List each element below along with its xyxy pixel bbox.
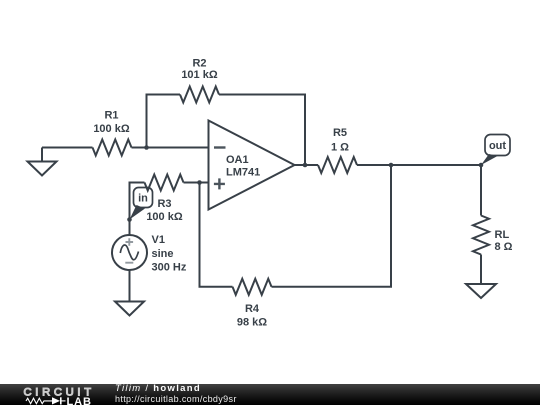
svg-text:101 kΩ: 101 kΩ [181,69,218,81]
svg-text:sine: sine [152,248,174,260]
wire node A to op-amp inverting input [147,147,209,149]
resistor R5 labels [331,127,349,153]
resistor R2 [180,87,219,103]
op-amp OA1 labels [226,154,260,178]
wire node E to R5 [305,164,318,166]
ground GND2 [115,302,144,316]
svg-text:R1: R1 [104,109,118,121]
node E junction at output [303,163,308,168]
CircuitLab logo diode symbol [52,397,66,404]
wire node D to node F [391,164,481,166]
node C junction at + input [197,180,202,185]
svg-text:LAB: LAB [67,396,92,405]
wire V1 to GND2 [129,270,131,302]
svg-text:out: out [489,140,506,152]
resistor RL [473,216,489,255]
svg-text:300 Hz: 300 Hz [152,261,187,273]
resistor R4 [233,279,272,295]
voltage source V1 [112,235,147,270]
node A junction [144,145,149,150]
svg-text:R5: R5 [333,127,347,139]
svg-text:8 Ω: 8 Ω [495,241,513,253]
svg-text:R2: R2 [192,57,206,69]
resistor R3 labels [146,198,183,223]
resistor RL labels [495,229,513,253]
wire node F down to RL [480,165,482,216]
wire node C down to R4 [200,183,233,287]
wire node B up to R3 [130,183,145,236]
ground GND1 [28,148,57,176]
footer bar [0,384,540,405]
svg-text:V1: V1 [152,234,165,246]
svg-text:OA1: OA1 [226,154,249,166]
wire R2 to output node [219,95,305,166]
footer title text [114,383,116,385]
wire node A up to R2 [147,95,181,148]
node D junction [389,163,394,168]
svg-text:100 kΩ: 100 kΩ [146,211,183,223]
net flag in [130,188,153,220]
wire R5 to node D [357,164,391,166]
wire node C to op-amp + input [200,182,209,184]
wire RL to GND3 [480,255,482,285]
node B junction at in flag [127,217,132,222]
svg-text:98 kΩ: 98 kΩ [237,317,267,329]
svg-text:in: in [138,193,148,205]
wire R3 to node C [184,182,200,184]
op-amp OA1 [209,121,295,210]
resistor R1 labels [93,109,130,134]
svg-text:R4: R4 [245,303,260,315]
wire GND1 to R1 [42,147,93,149]
wire R1 to node A [132,147,147,149]
ground GND3 [466,284,496,298]
voltage source V1 labels [152,234,187,273]
svg-text:100 kΩ: 100 kΩ [93,123,130,135]
wire op-amp output to node E [295,164,306,166]
resistor R3 [145,175,184,191]
resistor R2 labels [181,57,218,81]
resistor R1 [93,140,132,156]
resistor R5 [318,157,357,173]
svg-text:1 Ω: 1 Ω [331,141,349,153]
net flag out [481,135,510,166]
svg-text:LM741: LM741 [226,166,260,178]
wire R4 up to node D [272,165,392,287]
CircuitLab logo resistor symbol [26,398,52,404]
svg-text:RL: RL [495,229,510,241]
svg-text:R3: R3 [157,198,171,210]
resistor R4 labels [237,303,267,329]
node F junction at out flag [479,163,484,168]
